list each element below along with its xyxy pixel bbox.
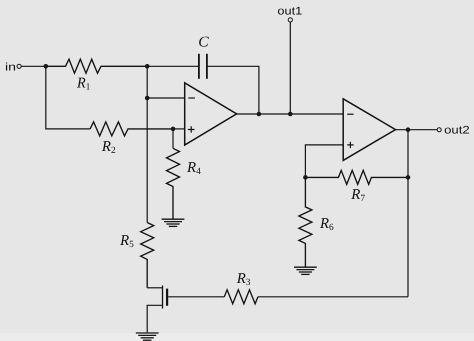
wire B to capacitor — [147, 65, 199, 67]
wire B down to node D — [146, 66, 148, 98]
ground under R4 — [162, 219, 185, 226]
node B junction — [145, 64, 150, 69]
wire R3 to feedback corner — [258, 296, 408, 298]
op-amp U2 — [343, 99, 395, 161]
transistor Q1 gate bar — [166, 289, 168, 306]
transistor Q1 source lead — [147, 305, 162, 332]
node out1 terminal — [288, 18, 292, 22]
transistor Q1 channel bar — [162, 286, 164, 309]
wire drain lead — [147, 287, 162, 289]
op-amp U1 minus sign — [188, 97, 195, 99]
resistor R6 — [299, 177, 312, 266]
node out1 junction — [288, 112, 293, 117]
svg-text:C: C — [198, 35, 209, 51]
capacitor C — [199, 54, 207, 79]
wire U1 output rail to U2 — [237, 113, 344, 115]
wire in lead — [21, 65, 45, 67]
node D junction — [145, 96, 150, 101]
node H junction — [406, 175, 411, 180]
resistor R5 — [141, 223, 154, 288]
node in : terminal — [17, 64, 21, 68]
node out2 terminal — [437, 128, 441, 132]
wire E down to R4 — [172, 129, 174, 148]
wire gate lead to R3 — [168, 296, 224, 298]
node E junction — [171, 127, 176, 132]
resistor R3 — [224, 290, 258, 304]
resistor R2 — [90, 122, 173, 136]
op-amp U2 plus sign — [347, 142, 353, 148]
node G junction — [303, 175, 308, 180]
wire out1 riser — [289, 22, 291, 114]
resistor R1 — [46, 59, 147, 73]
resistor R4 — [167, 148, 180, 218]
svg-text:out2: out2 — [444, 125, 470, 137]
svg-text:in: in — [5, 62, 16, 74]
op-amp U1 — [185, 83, 237, 145]
op-amp U2 minus sign — [347, 113, 353, 115]
node A junction — [44, 64, 49, 69]
wire capacitor to output node — [207, 66, 259, 114]
wire E to op-amp non-inverting input — [173, 128, 185, 130]
wire node A down to R2 rail — [46, 66, 90, 129]
node out2 junction — [406, 127, 411, 132]
ground under R6 — [294, 267, 317, 274]
wire D to op-amp inverting input — [147, 97, 185, 99]
svg-text:out1: out1 — [277, 6, 302, 18]
resistor R7 — [305, 170, 408, 184]
op-amp U1 plus sign — [188, 126, 195, 133]
node F junction (cap feedback) — [257, 112, 262, 117]
wire feedback riser — [407, 130, 409, 297]
wire U2 output to out2 — [396, 129, 438, 131]
wire D down to R5 — [146, 98, 148, 223]
wire U2 plus input to node G — [305, 145, 343, 178]
ground under Q1 — [136, 333, 159, 340]
